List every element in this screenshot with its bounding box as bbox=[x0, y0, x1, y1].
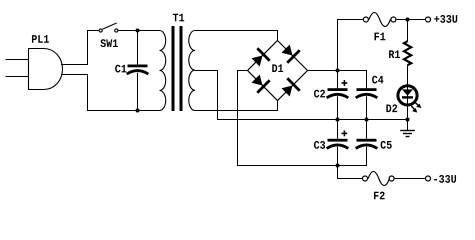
fuse F2 bbox=[363, 171, 395, 185]
wire secondary bottom to bridge bottom corner bbox=[195, 101, 278, 111]
capacitor C4 bbox=[356, 88, 378, 119]
diode D1 upper-left bbox=[252, 48, 270, 66]
label C5 bbox=[381, 141, 392, 149]
label C1 bbox=[115, 65, 126, 73]
label C2 bbox=[314, 90, 325, 98]
wire positive junction up to fuse F1 bbox=[338, 20, 363, 71]
wire positive junction to C4 top bbox=[338, 71, 367, 89]
diode D1 lower-left bbox=[252, 75, 270, 93]
wire plug lower output to primary bottom rail bbox=[61, 75, 160, 111]
junction +33V rail R1 bbox=[406, 18, 410, 22]
diode D1 upper-right bbox=[282, 45, 300, 63]
capacitor C1 bbox=[127, 31, 149, 111]
label PL1 bbox=[32, 35, 49, 43]
wire bridge positive to C2 C4 junction bbox=[308, 70, 338, 72]
label C3 bbox=[314, 141, 325, 149]
plus sign C2 bbox=[342, 82, 348, 84]
label R1 bbox=[389, 50, 400, 58]
junction C1 bottom bbox=[136, 109, 140, 113]
junction common rail C2 C3 bbox=[336, 118, 340, 122]
label F2 bbox=[374, 192, 385, 200]
transformer T1 secondary winding bbox=[189, 31, 195, 111]
switch SW1 bbox=[99, 23, 118, 32]
label +33V bbox=[434, 15, 457, 23]
label C4 bbox=[372, 76, 383, 84]
junction bridge positive bbox=[336, 69, 340, 73]
LED D2 bbox=[398, 86, 417, 120]
label -33V bbox=[434, 175, 456, 183]
wire fuse F1 to +33V terminal bbox=[397, 19, 425, 21]
junction common rail at ground bbox=[406, 118, 410, 122]
label T1 bbox=[173, 14, 184, 22]
capacitor C3 bbox=[327, 120, 349, 166]
junction -33V rail to fuse F2 bbox=[336, 164, 340, 168]
wire secondary center tap to common rail and ground bbox=[195, 71, 408, 120]
wire bridge negative to -33V rail bbox=[238, 71, 367, 166]
wire secondary top to bridge top corner bbox=[195, 31, 278, 41]
label D1 bbox=[272, 64, 283, 72]
ground bbox=[400, 120, 415, 137]
transformer T1 core bbox=[172, 26, 183, 111]
diode D1 lower-right bbox=[282, 78, 300, 96]
wire fuse F2 to -33V terminal bbox=[395, 178, 425, 180]
label SW1 bbox=[100, 39, 117, 47]
wire -33V rail junction down to fuse F2 bbox=[338, 166, 363, 179]
junction common rail C4 C5 bbox=[365, 118, 369, 122]
junction C1 top bbox=[136, 29, 140, 33]
label F1 bbox=[375, 33, 386, 41]
node +33V terminal bbox=[426, 17, 431, 22]
capacitor C5 bbox=[356, 120, 378, 166]
LED D2 emission arrows bbox=[411, 102, 421, 113]
transformer T1 primary winding bbox=[160, 31, 166, 111]
wire switch to transformer primary top bbox=[118, 30, 159, 32]
label D2 bbox=[386, 104, 397, 112]
wire plug upper output to switch SW1 bbox=[61, 31, 99, 65]
resistor R1 bbox=[404, 20, 411, 87]
bridge rectifier D1 diamond bbox=[248, 41, 308, 101]
plug PL1 bbox=[6, 49, 63, 90]
capacitor C2 bbox=[327, 71, 349, 120]
node -33V terminal bbox=[426, 176, 431, 181]
plus sign C3 bbox=[342, 132, 348, 134]
fuse F1 bbox=[363, 12, 396, 26]
